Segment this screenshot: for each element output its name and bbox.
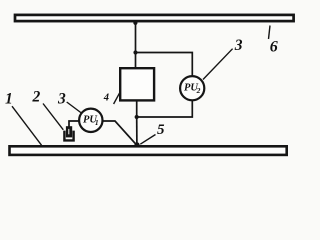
meter PU1 (79, 109, 102, 132)
wire: PU2 bottom to junction below box 4 (137, 100, 193, 117)
node: branch junction to PU2 (133, 50, 137, 54)
box 4 (device) (120, 68, 154, 100)
wire: branch junction to PU2 top (136, 53, 193, 77)
svg-text:2: 2 (196, 86, 201, 95)
leader line 3 (left) (67, 102, 82, 113)
leader line 6 (269, 26, 271, 40)
meter PU2 (180, 76, 204, 100)
wire: junction down to bottom busbar (node 5) (136, 117, 138, 146)
node: tap junction on top busbar (133, 21, 137, 25)
wire: box 4 bottom to node below (136, 100, 138, 117)
svg-text:3: 3 (234, 37, 243, 54)
svg-text:1: 1 (5, 90, 13, 107)
svg-text:4: 4 (103, 93, 109, 104)
leader line 4 (114, 92, 120, 104)
wire: PU1 left to sensor 2 (69, 121, 79, 128)
svg-text:3: 3 (57, 91, 66, 108)
svg-text:5: 5 (157, 122, 165, 138)
leader line 3 (right) (203, 49, 233, 80)
node: junction below box 4 (135, 115, 139, 119)
svg-text:1: 1 (95, 118, 99, 127)
leader line 2 (43, 104, 63, 130)
leader line 5 (140, 135, 155, 145)
leader line 1 (12, 106, 42, 145)
node 5 junction blob on bottom busbar (134, 142, 139, 147)
sensor 2 (plug in holder on bottom busbar) (64, 126, 73, 140)
svg-text:6: 6 (270, 38, 278, 55)
busbar top (net 6) (15, 15, 294, 21)
svg-text:2: 2 (32, 89, 41, 106)
wire: top busbar tap down to box 4 (135, 21, 137, 68)
wire: PU1 right down to node 5 (102, 121, 136, 145)
busbar bottom (10, 146, 287, 155)
